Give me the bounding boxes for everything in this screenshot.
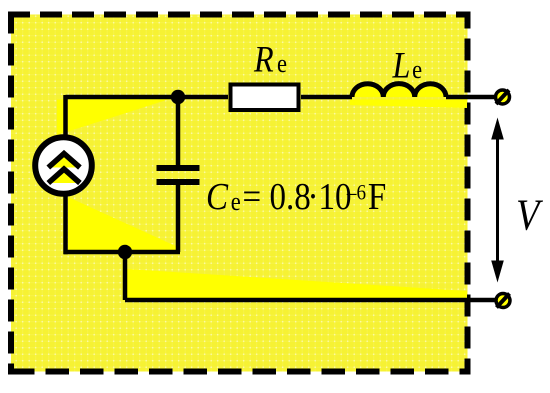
highlight wedge B (above bottom-left wire) [68, 197, 180, 252]
highlight wedge D (below inductor wire) [350, 100, 467, 109]
dashed border frame with yellow fill [11, 15, 468, 372]
svg-text:V: V [516, 190, 544, 239]
upper terminal [496, 90, 510, 104]
label R1 "Re" [253, 39, 287, 80]
current source chevron stroke lower [48, 169, 80, 183]
svg-text:·10: ·10 [308, 175, 352, 218]
wire: inductor to upper terminal [446, 95, 496, 100]
current source chevron fill lower [50, 170, 78, 183]
wire: bottom-left horizontal [64, 250, 180, 255]
voltage arrow V [496, 135, 499, 266]
svg-text:C: C [206, 175, 229, 218]
lower terminal [496, 294, 510, 308]
label L1 "Le" [392, 45, 423, 86]
highlight wedge C (above bottom wire) [127, 269, 467, 300]
capacitor Ce plates [157, 165, 200, 171]
wire: source bottom vertical [63, 193, 68, 254]
svg-text:= 0.8: = 0.8 [243, 175, 311, 218]
highlight wedge A (under top wire) [57, 97, 176, 135]
svg-text:e: e [277, 50, 287, 79]
node A junction dot (top) [171, 90, 185, 104]
svg-text:R: R [253, 39, 274, 80]
label C1 "Ce= 0.8e-6 F" [206, 175, 386, 218]
current source chevron fill upper [50, 155, 78, 168]
svg-text:e: e [231, 188, 241, 217]
node B junction dot (bottom) [118, 245, 132, 259]
resistor Re body [231, 85, 299, 111]
label V [516, 190, 544, 239]
wire: capacitor top lead [176, 97, 181, 165]
current source chevron stroke upper [48, 154, 80, 168]
svg-text:F: F [368, 175, 386, 218]
svg-text:e: e [412, 56, 422, 85]
wire: bottom horizontal to terminal [125, 298, 496, 303]
inductor Le coil [352, 84, 446, 97]
wire: resistor to inductor [301, 95, 352, 100]
wire: capacitor bottom lead [176, 185, 181, 252]
svg-text:L: L [392, 45, 411, 86]
current source U1 circle [35, 137, 92, 194]
wire: jog down from node B [123, 252, 128, 300]
svg-text:–6: –6 [346, 181, 366, 204]
wire: source top vertical [63, 95, 68, 138]
wire: source top to resistor [66, 95, 229, 100]
